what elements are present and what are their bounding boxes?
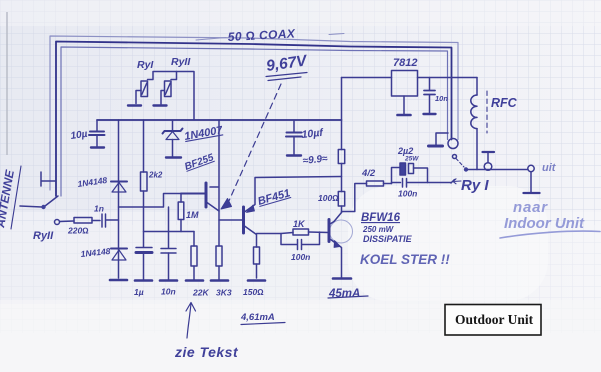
svg-text:KOEL STER !!: KOEL STER !! [360, 252, 450, 267]
svg-text:RFC: RFC [491, 96, 518, 110]
svg-text:7812: 7812 [393, 57, 417, 69]
svg-text:45mA: 45mA [328, 288, 360, 300]
svg-text:250 mW: 250 mW [362, 225, 395, 234]
svg-text:4/2: 4/2 [361, 168, 376, 179]
svg-text:1K: 1K [293, 219, 306, 229]
svg-text:RyI: RyI [137, 59, 154, 71]
svg-text:Outdoor Unit: Outdoor Unit [455, 312, 534, 327]
svg-text:Ry I: Ry I [461, 177, 489, 194]
svg-text:10µf: 10µf [301, 127, 325, 141]
svg-text:220Ω: 220Ω [67, 226, 89, 236]
svg-text:zie Tekst: zie Tekst [174, 344, 239, 360]
svg-text:100n: 100n [291, 252, 310, 262]
svg-text:uit: uit [542, 162, 557, 174]
svg-text:3K3: 3K3 [216, 288, 232, 298]
svg-text:100Ω: 100Ω [318, 193, 339, 203]
svg-text:25W: 25W [404, 156, 419, 163]
svg-text:naar: naar [513, 199, 548, 216]
svg-text:2k2: 2k2 [148, 171, 163, 180]
svg-text:1µ: 1µ [134, 287, 144, 297]
svg-text:10n: 10n [161, 287, 176, 297]
svg-text:RyII: RyII [171, 56, 191, 68]
svg-text:1M: 1M [186, 210, 199, 220]
svg-text:RyII: RyII [33, 230, 54, 242]
svg-text:Indoor Unit: Indoor Unit [504, 215, 585, 232]
svg-text:100n: 100n [398, 189, 417, 199]
svg-text:BFW16: BFW16 [361, 212, 401, 224]
svg-text:1n: 1n [94, 204, 104, 214]
svg-text:DISSiPATIE: DISSiPATIE [363, 234, 413, 244]
svg-text:150Ω: 150Ω [243, 287, 264, 297]
svg-text:4,61mA: 4,61mA [240, 312, 275, 323]
svg-text:22K: 22K [192, 288, 209, 298]
svg-text:2µ2: 2µ2 [397, 146, 413, 156]
svg-text:10n: 10n [435, 94, 448, 103]
